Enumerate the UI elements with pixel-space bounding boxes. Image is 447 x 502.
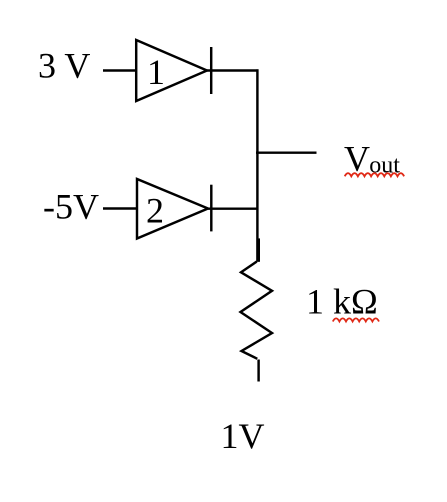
svg-text:1: 1 <box>147 52 165 92</box>
svg-text:-5V: -5V <box>43 187 99 227</box>
svg-text:1 kΩ: 1 kΩ <box>306 282 378 322</box>
wire from D1 cathode to node column <box>207 69 259 71</box>
wire from D2 cathode to node junction <box>208 207 257 209</box>
wire node column vertical <box>256 69 258 261</box>
svg-text:1V: 1V <box>221 416 265 456</box>
diode D2 triangle <box>137 179 208 239</box>
wire Vout stub <box>256 151 317 153</box>
wire from -5V label to diode D2 anode <box>103 207 138 209</box>
resistor R1 bottom lead <box>257 360 259 382</box>
spellcheck squiggle under Vout <box>345 173 404 176</box>
resistor R1 zigzag body <box>241 262 273 359</box>
diode D1 triangle <box>136 40 207 101</box>
wire from 3V label to diode D1 anode <box>103 69 137 71</box>
svg-text:2: 2 <box>146 190 164 230</box>
svg-text:3 V: 3 V <box>38 46 90 86</box>
diode D1 cathode bar <box>210 47 212 94</box>
resistor R1 top lead <box>257 238 260 261</box>
diode D2 cathode bar <box>210 185 212 232</box>
spellcheck squiggle under kOhm <box>333 318 379 321</box>
